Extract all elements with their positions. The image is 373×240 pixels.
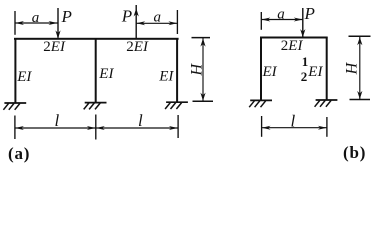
svg-text:2EI: 2EI (43, 39, 66, 55)
svg-text:2EI: 2EI (281, 38, 304, 54)
column left EI frame (b) (260, 37, 262, 101)
load P1 arrow frame (a) (55, 8, 60, 39)
column left EI frame (a) (14, 38, 16, 103)
svg-text:H: H (189, 62, 206, 76)
dimension a left frame (a) (15, 11, 58, 35)
svg-text:H: H (344, 61, 361, 75)
svg-text:P: P (61, 7, 72, 26)
load P arrow frame (b) (300, 8, 305, 37)
beam 2EI frame (b) (260, 37, 328, 39)
dimension a frame (b) (261, 12, 303, 30)
svg-text:P: P (304, 4, 315, 23)
svg-text:EI: EI (98, 66, 114, 82)
span dimension l right frame (a) (96, 115, 178, 140)
dimension H frame (b) (349, 36, 371, 99)
svg-text:EI: EI (158, 68, 174, 84)
svg-text:EI: EI (16, 69, 32, 85)
fixed support middle frame (a) (84, 103, 107, 110)
column right half-EI frame (b) (326, 37, 328, 100)
fixed support left frame (a) (3, 103, 26, 110)
svg-text:2: 2 (301, 69, 308, 84)
svg-text:(a): (a) (8, 144, 30, 163)
fixed support right frame (b) (315, 100, 338, 107)
svg-text:l: l (138, 111, 143, 130)
span dimension l left frame (a) (15, 116, 96, 140)
svg-text:l: l (55, 111, 60, 130)
span dimension l frame (b) (262, 116, 327, 137)
label 1/2 EI right column frame (b) (301, 54, 324, 84)
svg-text:P: P (121, 7, 132, 26)
svg-text:EI: EI (307, 64, 323, 80)
fixed support left frame (b) (249, 100, 272, 107)
dimension H frame (a) (192, 38, 214, 102)
beam 2EI frame (a) (14, 38, 179, 40)
svg-text:l: l (291, 111, 296, 130)
load P2 arrow frame (a), arrowhead up at top (134, 5, 139, 38)
fixed support right frame (a) (165, 102, 188, 109)
svg-text:EI: EI (262, 64, 278, 80)
column middle EI frame (a) (95, 38, 97, 103)
svg-text:a: a (32, 10, 40, 26)
column right EI frame (a) (176, 38, 178, 103)
svg-text:2EI: 2EI (126, 39, 149, 55)
dimension a right frame (a) (136, 10, 177, 34)
svg-text:a: a (154, 9, 162, 25)
svg-text:a: a (277, 7, 285, 23)
svg-text:(b): (b) (343, 143, 366, 162)
